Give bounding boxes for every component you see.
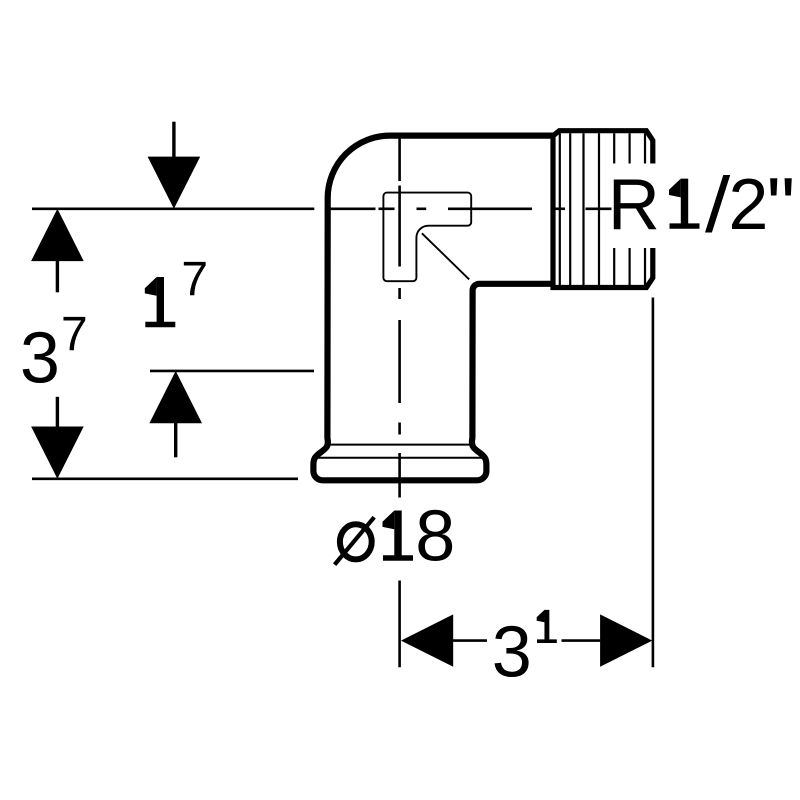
svg-text:8: 8: [415, 497, 455, 577]
svg-text:3: 3: [20, 318, 60, 398]
svg-text:7: 7: [61, 308, 88, 361]
svg-text:3: 3: [492, 612, 532, 692]
svg-text:": ": [767, 161, 795, 250]
svg-text:R: R: [608, 165, 660, 245]
svg-text:2: 2: [728, 165, 768, 245]
svg-text:7: 7: [181, 253, 208, 306]
